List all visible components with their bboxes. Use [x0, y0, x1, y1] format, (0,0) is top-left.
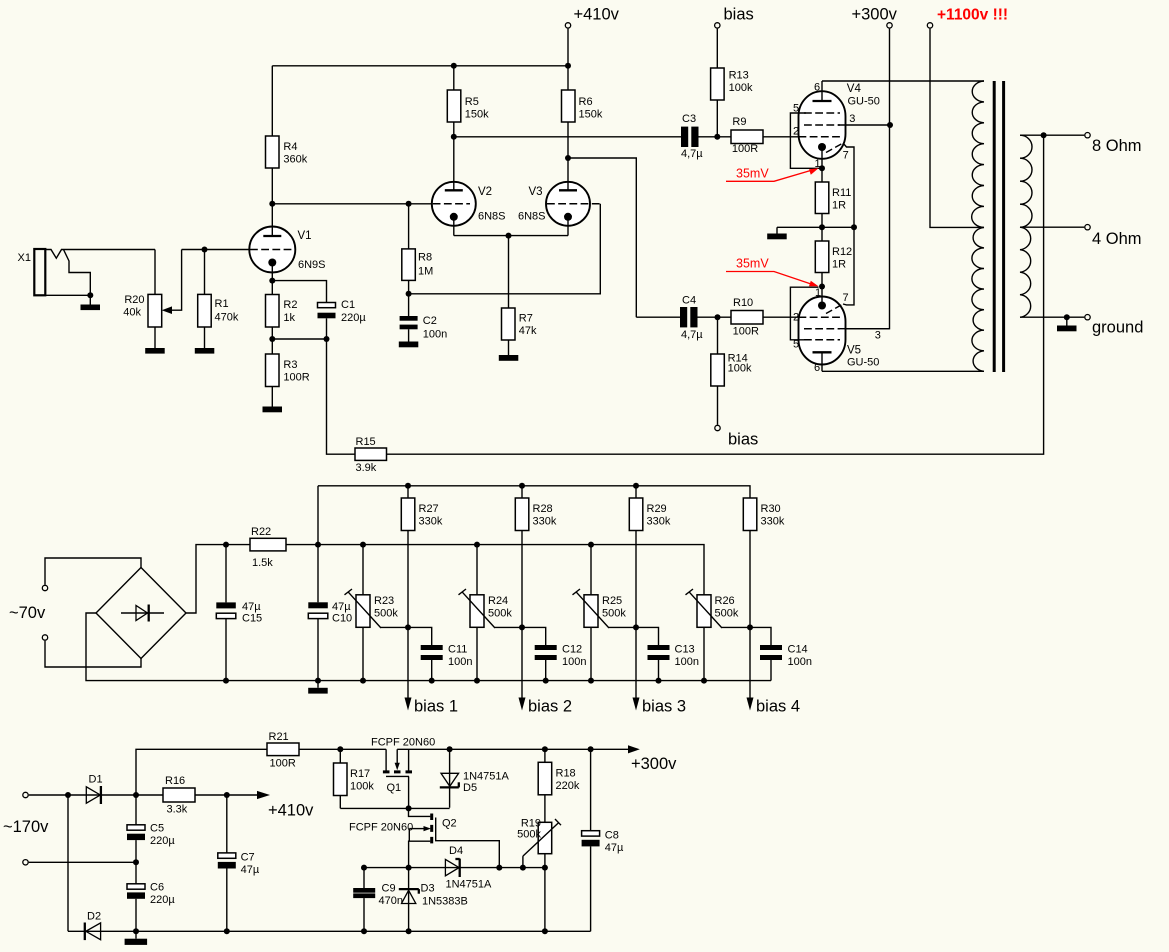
svg-text:D2: D2 — [87, 911, 101, 923]
wire cathode bus V2 V3 — [454, 235, 568, 237]
svg-text:D4: D4 — [449, 845, 463, 857]
resistor R7 — [502, 236, 538, 355]
node bias terminal top — [715, 6, 754, 69]
svg-text:6N9S: 6N9S — [298, 259, 326, 271]
zener D4 — [445, 845, 492, 891]
ground at output — [1057, 317, 1077, 331]
svg-text:47k: 47k — [519, 325, 537, 337]
svg-text:R7: R7 — [519, 313, 533, 325]
svg-text:C7: C7 — [241, 852, 255, 864]
resistor R22 — [250, 526, 286, 569]
resistor R14 — [711, 317, 752, 425]
svg-text:220µ: 220µ — [150, 835, 175, 847]
svg-text:500k: 500k — [517, 829, 541, 841]
svg-text:R12: R12 — [832, 246, 852, 258]
resistor R10 — [731, 297, 799, 338]
svg-text:100k: 100k — [728, 363, 752, 375]
ground at R3 — [263, 407, 283, 413]
svg-text:C6: C6 — [150, 882, 164, 894]
svg-text:1: 1 — [815, 287, 821, 299]
svg-text:C8: C8 — [605, 830, 619, 842]
svg-text:Q1: Q1 — [387, 782, 402, 794]
svg-text:4,7µ: 4,7µ — [681, 148, 703, 160]
resistor R29 — [629, 486, 671, 628]
wire V5 anode to transformer — [822, 370, 984, 372]
transformer secondary winding — [1020, 135, 1032, 317]
svg-text:C3: C3 — [682, 113, 696, 125]
svg-text:100R: 100R — [732, 143, 758, 155]
svg-text:100n: 100n — [562, 656, 586, 668]
wire bridge minus output to ground rail — [86, 613, 771, 681]
svg-text:R20: R20 — [124, 294, 144, 306]
node +410v terminal — [565, 6, 619, 66]
svg-text:100k: 100k — [350, 781, 374, 793]
wire V3 anode to C4 drop — [568, 158, 636, 317]
svg-text:C13: C13 — [675, 644, 695, 656]
potentiometer R20 — [123, 250, 181, 349]
svg-text:R13: R13 — [729, 70, 749, 82]
wire R8 bottom to V3 grid — [409, 204, 601, 294]
svg-text:R5: R5 — [465, 96, 479, 108]
resistor R30 — [743, 498, 785, 627]
resistor R28 — [515, 486, 557, 628]
svg-text:D1: D1 — [89, 774, 103, 786]
svg-text:R30: R30 — [761, 503, 781, 515]
ground at X1 — [81, 295, 101, 310]
transformer core — [993, 81, 996, 372]
wire gate node row — [340, 807, 449, 809]
note 35mV upper — [726, 167, 819, 182]
svg-text:100n: 100n — [448, 656, 472, 668]
svg-text:4,7µ: 4,7µ — [681, 329, 703, 341]
svg-text:100R: 100R — [733, 326, 759, 338]
wire secondary top to 8 Ohm — [1020, 134, 1084, 136]
svg-text:330k: 330k — [761, 516, 785, 528]
resistor R21 — [267, 731, 299, 770]
resistor R6 — [562, 66, 603, 158]
wire wiper to grid — [202, 247, 208, 253]
node V1 cathode junction — [269, 278, 275, 284]
svg-text:R29: R29 — [647, 503, 667, 515]
svg-text:R27: R27 — [419, 503, 439, 515]
connector X1 jack — [18, 249, 156, 298]
resistor R15 — [327, 339, 387, 474]
svg-text:V5: V5 — [847, 345, 861, 357]
wire R2/R3 junction row — [272, 338, 326, 340]
svg-text:C5: C5 — [150, 823, 164, 835]
svg-text:2: 2 — [793, 126, 799, 138]
svg-text:5: 5 — [793, 339, 799, 351]
svg-text:R26: R26 — [715, 595, 735, 607]
wire secondary bottom to ground — [1020, 316, 1084, 318]
svg-text:35mV: 35mV — [736, 257, 769, 271]
svg-text:R21: R21 — [269, 731, 289, 743]
wire feedback line to output — [387, 135, 1044, 454]
svg-text:500k: 500k — [374, 608, 398, 620]
svg-text:6N8S: 6N8S — [478, 211, 506, 223]
capacitor C1 — [318, 299, 367, 339]
tube V2 6N8S — [432, 137, 506, 236]
wire bottom ground rail — [136, 930, 591, 932]
svg-text:+1100v !!!: +1100v !!! — [937, 7, 1008, 24]
wire R19 node to bottom rail — [544, 868, 546, 932]
svg-text:470k: 470k — [215, 312, 239, 324]
wire source node row — [364, 867, 545, 869]
svg-text:1R: 1R — [832, 200, 846, 212]
svg-text:330k: 330k — [647, 516, 671, 528]
capacitor C7 — [218, 795, 260, 931]
svg-text:150k: 150k — [465, 109, 489, 121]
svg-text:R18: R18 — [556, 768, 576, 780]
svg-text:1R: 1R — [832, 259, 846, 271]
node ~170v input — [3, 792, 49, 865]
wire pot supply rail — [286, 545, 704, 595]
capacitor C8 — [582, 749, 624, 931]
tube V1 6N9S — [249, 204, 325, 281]
svg-text:+300v: +300v — [631, 755, 677, 773]
svg-text:100k: 100k — [729, 82, 753, 94]
node +300v output — [628, 745, 677, 773]
tube V5 GU-50 — [790, 227, 889, 374]
svg-text:R4: R4 — [283, 141, 297, 153]
zener D3 — [399, 868, 468, 932]
svg-text:R2: R2 — [283, 299, 297, 311]
wire regulator top rail — [299, 748, 386, 750]
svg-text:3: 3 — [875, 330, 881, 342]
wire input top to D1 — [29, 794, 136, 796]
transformer primary winding — [972, 81, 984, 371]
svg-text:1N4751A: 1N4751A — [446, 879, 493, 891]
wire V2 anode to C3 — [454, 136, 681, 138]
capacitor C9 — [353, 868, 403, 932]
svg-text:bias 1: bias 1 — [414, 698, 458, 716]
wire left drop to bottom rail — [67, 795, 69, 931]
svg-text:6: 6 — [814, 82, 820, 94]
svg-text:R23: R23 — [374, 595, 394, 607]
svg-text:GU-50: GU-50 — [847, 357, 879, 369]
resistor R4 — [266, 66, 308, 204]
svg-text:330k: 330k — [533, 516, 557, 528]
node bias terminal bottom — [715, 425, 758, 448]
bridge rectifier — [96, 568, 186, 659]
svg-text:R17: R17 — [350, 768, 370, 780]
ground at R20 — [145, 348, 165, 354]
svg-text:FCPF 20N60: FCPF 20N60 — [349, 822, 413, 834]
svg-text:bias 4: bias 4 — [756, 698, 800, 716]
svg-text:4 Ohm: 4 Ohm — [1092, 230, 1142, 248]
svg-text:R22: R22 — [251, 526, 271, 538]
svg-text:D3: D3 — [421, 883, 435, 895]
node +300v terminal — [846, 6, 898, 329]
potentiometer R25 — [573, 542, 637, 681]
resistor R9 — [731, 116, 799, 155]
svg-text:R28: R28 — [533, 503, 553, 515]
wire upper 330k rail — [318, 486, 750, 498]
ground at bottom rail — [125, 931, 148, 945]
svg-text:7: 7 — [843, 150, 849, 162]
svg-text:C11: C11 — [448, 644, 467, 656]
wire secondary tap to 4 Ohm — [1020, 226, 1084, 228]
capacitor C15 — [216, 545, 262, 681]
capacitor C4 — [636, 295, 731, 342]
node ~70v input — [9, 585, 48, 640]
svg-text:330k: 330k — [419, 516, 443, 528]
svg-text:V2: V2 — [478, 186, 492, 198]
svg-text:C4: C4 — [682, 295, 696, 307]
svg-text:Q2: Q2 — [442, 818, 457, 830]
svg-text:R1: R1 — [215, 298, 229, 310]
node bias 4 output — [747, 627, 801, 715]
svg-text:470n: 470n — [379, 895, 403, 907]
potentiometer R26 — [686, 589, 751, 681]
capacitor C6 — [127, 862, 175, 931]
ground at C2 — [399, 342, 419, 348]
svg-text:100R: 100R — [270, 758, 296, 770]
svg-text:R24: R24 — [488, 595, 508, 607]
svg-text:FCPF 20N60: FCPF 20N60 — [371, 737, 435, 749]
resistor R16 — [136, 775, 195, 816]
node bias 1 output — [405, 627, 459, 715]
resistor R3 — [266, 339, 310, 407]
svg-text:100n: 100n — [423, 329, 447, 341]
svg-text:360k: 360k — [283, 154, 307, 166]
potentiometer R24 — [459, 542, 523, 681]
svg-text:5: 5 — [793, 103, 799, 115]
svg-text:6: 6 — [814, 362, 820, 374]
resistor R13 — [711, 68, 753, 137]
resistor R11 — [815, 168, 851, 227]
transistor Q1 FCPF 20N60 — [371, 737, 435, 809]
svg-text:100n: 100n — [788, 656, 812, 668]
svg-text:C9: C9 — [382, 883, 396, 895]
svg-text:220k: 220k — [556, 780, 580, 792]
svg-text:47µ: 47µ — [605, 842, 624, 854]
capacitor C3 — [681, 113, 731, 160]
svg-text:100R: 100R — [283, 372, 309, 384]
tube V3 6N8S — [518, 158, 602, 236]
svg-text:6N8S: 6N8S — [518, 211, 546, 223]
svg-text:3: 3 — [849, 113, 855, 125]
svg-text:V4: V4 — [847, 83, 862, 95]
capacitor C2 — [400, 294, 448, 342]
svg-text:40k: 40k — [123, 307, 141, 319]
wire +410v rail — [272, 65, 568, 67]
node bias 2 output — [519, 627, 573, 715]
ground at C10 — [308, 681, 328, 694]
node +410v output — [195, 791, 314, 820]
svg-text:3.9k: 3.9k — [356, 462, 377, 474]
wire V1 anode row to V2 grid — [272, 203, 432, 205]
wire raw rail up to R21 — [136, 749, 267, 795]
svg-text:100n: 100n — [675, 656, 699, 668]
tube V4 GU-50 — [790, 81, 890, 227]
svg-text:R15: R15 — [356, 436, 376, 448]
svg-text:47µ: 47µ — [242, 601, 261, 613]
svg-text:47µ: 47µ — [241, 864, 260, 876]
svg-text:1k: 1k — [283, 312, 295, 324]
svg-text:ground: ground — [1092, 319, 1143, 337]
svg-text:R9: R9 — [732, 116, 746, 128]
svg-text:bias: bias — [728, 431, 758, 449]
ground at R11 R12 — [767, 227, 787, 239]
resistor R8 — [402, 204, 433, 294]
svg-text:R10: R10 — [733, 297, 753, 309]
svg-text:+300v: +300v — [852, 6, 898, 24]
svg-text:D5: D5 — [463, 782, 477, 794]
svg-text:C12: C12 — [562, 644, 582, 656]
diode D2 — [68, 911, 136, 941]
svg-text:bias: bias — [724, 6, 754, 24]
ground at R1 — [195, 348, 215, 354]
svg-text:bias 2: bias 2 — [528, 698, 572, 716]
resistor R12 — [815, 227, 852, 286]
svg-text:220µ: 220µ — [150, 894, 175, 906]
wire input mid — [29, 861, 136, 863]
svg-text:R3: R3 — [283, 359, 297, 371]
note 35mV lower — [726, 257, 819, 287]
svg-text:47µ: 47µ — [332, 601, 351, 613]
svg-text:R8: R8 — [418, 252, 432, 264]
ground at R7 — [499, 355, 519, 361]
potentiometer R23 — [345, 542, 409, 681]
svg-text:V3: V3 — [529, 186, 543, 198]
svg-text:35mV: 35mV — [736, 167, 769, 181]
svg-text:+410v: +410v — [268, 802, 314, 820]
transistor Q2 FCPF 20N60 — [349, 808, 499, 867]
svg-text:C15: C15 — [242, 613, 262, 625]
svg-text:C1: C1 — [341, 299, 355, 311]
wire AC input to bridge — [45, 558, 141, 585]
svg-text:R25: R25 — [602, 595, 622, 607]
svg-text:R6: R6 — [579, 96, 593, 108]
wire R11 R12 midpoint — [777, 226, 854, 228]
svg-text:8 Ohm: 8 Ohm — [1092, 137, 1142, 155]
capacitor C10 — [308, 486, 352, 681]
svg-text:220µ: 220µ — [341, 312, 366, 324]
svg-text:C14: C14 — [788, 644, 808, 656]
capacitor C12 — [522, 627, 586, 680]
node bias 3 output — [633, 627, 687, 715]
svg-text:+410v: +410v — [574, 6, 620, 24]
capacitor C13 — [636, 627, 699, 680]
svg-text:1.5k: 1.5k — [252, 557, 273, 569]
svg-text:1M: 1M — [418, 266, 433, 278]
svg-text:7: 7 — [843, 292, 849, 304]
svg-text:GU-50: GU-50 — [848, 96, 880, 108]
resistor R5 — [447, 66, 489, 137]
node ground terminal — [1085, 315, 1144, 337]
svg-text:~170v: ~170v — [3, 818, 49, 836]
svg-text:150k: 150k — [579, 109, 603, 121]
svg-text:1N5383B: 1N5383B — [422, 896, 468, 908]
svg-text:500k: 500k — [715, 608, 739, 620]
capacitor C14 — [750, 627, 812, 680]
svg-text:C2: C2 — [423, 315, 437, 327]
capacitor C11 — [408, 627, 472, 680]
zener D5 — [440, 749, 510, 807]
svg-text:V1: V1 — [298, 230, 312, 242]
node 4 Ohm terminal — [1085, 225, 1142, 249]
svg-text:500k: 500k — [602, 608, 626, 620]
svg-text:R11: R11 — [832, 187, 851, 199]
svg-text:X1: X1 — [18, 252, 31, 264]
resistor R17 — [334, 749, 375, 808]
svg-text:3.3k: 3.3k — [167, 804, 188, 816]
potentiometer R19 — [517, 818, 561, 868]
wire bridge plus output — [186, 545, 250, 613]
svg-text:~70v: ~70v — [9, 604, 46, 622]
diode D1 — [86, 774, 102, 805]
wire V4 anode to transformer — [822, 80, 984, 82]
resistor R18 — [538, 749, 580, 822]
node 8 Ohm terminal — [1085, 133, 1142, 156]
svg-text:C10: C10 — [332, 613, 352, 625]
svg-text:1N4751A: 1N4751A — [463, 771, 510, 783]
svg-text:bias 3: bias 3 — [642, 698, 686, 716]
svg-text:500k: 500k — [488, 608, 512, 620]
resistor R27 — [401, 486, 443, 628]
resistor R2 — [266, 281, 298, 339]
node +1100v terminal — [927, 7, 1008, 228]
svg-text:R16: R16 — [165, 775, 185, 787]
node junction dots on +410v rail — [451, 63, 457, 69]
capacitor C5 — [127, 795, 175, 862]
resistor R1 — [198, 250, 239, 349]
